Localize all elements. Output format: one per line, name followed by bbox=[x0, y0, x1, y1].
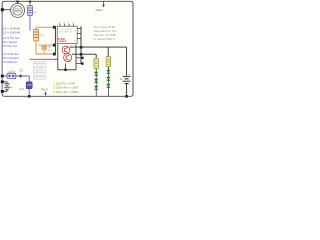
wire string2 mid bbox=[107, 67, 109, 70]
wire under-box left bbox=[58, 44, 76, 70]
wire orange mid bbox=[35, 41, 37, 54]
wire left bus bbox=[54, 27, 56, 55]
wire rail A bbox=[70, 46, 127, 48]
node rail A start bbox=[80, 46, 83, 49]
pin top stubs bbox=[59, 24, 61, 26]
svg-text:4u7: 4u7 bbox=[48, 49, 53, 52]
wire battery right drop bbox=[126, 47, 128, 76]
wire q2 stub right b bbox=[76, 63, 83, 65]
LED string2 d1 bbox=[107, 70, 111, 77]
wire purple feed bbox=[3, 75, 29, 77]
capacitor C2 bbox=[43, 45, 45, 47]
node rail B start bbox=[80, 53, 83, 56]
wire orange top bbox=[36, 27, 55, 29]
wire ic right pin b bbox=[77, 32, 81, 34]
wire q2 stub right a bbox=[76, 57, 83, 59]
transistor Q2 bbox=[64, 54, 72, 62]
node battery bottom junction bbox=[125, 95, 128, 98]
wire orange bottom bbox=[36, 53, 55, 54]
wire motor left lead bbox=[4, 9, 11, 11]
LED string1 d1 bbox=[94, 72, 98, 79]
wire orange pin6 bbox=[39, 44, 55, 46]
node fan supply pad bbox=[1, 8, 4, 11]
node purple bottom junction bbox=[28, 95, 31, 98]
node orange bottom junction bbox=[53, 53, 56, 56]
svg-text:D2 = 1N4148: D2 = 1N4148 bbox=[3, 30, 21, 34]
transistor Q1 bbox=[62, 46, 70, 54]
svg-text:In Series With It: In Series With It bbox=[94, 37, 115, 41]
svg-text:CM COMP OUT: CM COMP OUT bbox=[58, 32, 74, 34]
wire right bus bbox=[80, 26, 82, 64]
node motor top junction bbox=[16, 1, 18, 3]
LED string1 d2 bbox=[94, 79, 98, 86]
wire string2 drop bbox=[107, 47, 109, 57]
resistor Rx2 bbox=[106, 57, 110, 67]
switch S1 bbox=[7, 73, 16, 78]
wire purple dropper lower bbox=[29, 16, 31, 31]
op-amp U1 555 body bbox=[57, 26, 77, 43]
node battery left pad bottom bbox=[1, 90, 4, 93]
battery BT1 bbox=[3, 81, 7, 83]
wire battery right bottom bbox=[126, 84, 128, 96]
svg-text:2u2: 2u2 bbox=[19, 87, 24, 91]
motor M1 fan bbox=[11, 3, 25, 17]
svg-text:Of The Fan: Of The Fan bbox=[3, 44, 18, 48]
node q2 stub square b bbox=[81, 62, 83, 64]
svg-text:Of Flashes: Of Flashes bbox=[3, 60, 18, 64]
svg-text:+: + bbox=[128, 72, 130, 76]
svg-text:555: 555 bbox=[58, 38, 66, 44]
pointer blue leader bbox=[30, 58, 56, 60]
resistor R1 purple bbox=[28, 5, 33, 15]
node feed junction diamond bbox=[19, 74, 23, 78]
node switch left pad bbox=[1, 75, 4, 78]
label faint S1 bbox=[19, 69, 23, 72]
node orange mid junction bbox=[53, 44, 56, 47]
wire outer frame bbox=[2, 1, 133, 96]
wire motor top stub bbox=[17, 1, 19, 3]
node battery left pad top bbox=[1, 80, 4, 83]
node orange top junction bbox=[53, 26, 56, 29]
resistor Rx1 bbox=[94, 58, 98, 68]
node purple dropper top junction bbox=[29, 1, 31, 3]
svg-text:Pin 2: Pin 2 bbox=[41, 88, 48, 92]
wire string1 mid bbox=[95, 69, 97, 72]
potentiometer PO bbox=[34, 29, 39, 41]
LED string1 d3 bbox=[94, 86, 98, 96]
capacitor C3 purple bbox=[26, 82, 32, 89]
LED string2 d3 bbox=[107, 84, 111, 96]
wire ic right pin a bbox=[77, 27, 81, 29]
svg-text:Parts: Parts bbox=[96, 8, 104, 12]
table faint pinout bbox=[34, 62, 46, 80]
battery BT2 bbox=[123, 75, 131, 77]
pointer pin2 arrow bbox=[45, 91, 47, 94]
wire left rail purple tint bbox=[1, 14, 3, 94]
label Parts pointer arrow bbox=[103, 2, 105, 6]
wire purple drop bbox=[28, 76, 30, 96]
wire ic right pin c bbox=[77, 37, 81, 39]
svg-text:PO: PO bbox=[40, 33, 44, 37]
LED string2 d2 bbox=[107, 77, 111, 84]
node q2 stub square a bbox=[81, 57, 83, 59]
svg-text:3 LEDs Rx = 250R: 3 LEDs Rx = 250R bbox=[53, 90, 79, 94]
wire rail B bbox=[72, 54, 96, 58]
wire purple dropper upper bbox=[29, 1, 31, 5]
